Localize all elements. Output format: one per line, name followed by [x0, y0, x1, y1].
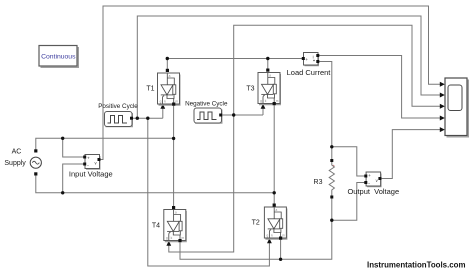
svg-text:AC: AC	[12, 149, 22, 156]
svg-text:T4: T4	[152, 223, 160, 230]
svg-text:Supply: Supply	[4, 160, 26, 167]
svg-text:Output Voltage: Output Voltage	[347, 187, 399, 196]
svg-text:+: +	[333, 163, 336, 168]
svg-text:T3: T3	[246, 85, 254, 92]
svg-text:Input Voltage: Input Voltage	[69, 170, 113, 179]
svg-text:Negative Cycle: Negative Cycle	[185, 101, 228, 108]
svg-text:T2: T2	[252, 220, 260, 227]
svg-text:Load Current: Load Current	[287, 68, 332, 77]
svg-text:InstrumentationTools.com: InstrumentationTools.com	[367, 260, 466, 269]
svg-text:T1: T1	[146, 85, 154, 92]
svg-text:Positive Cycle: Positive Cycle	[98, 103, 138, 110]
svg-text:Continuous: Continuous	[41, 53, 76, 60]
svg-text:R3: R3	[314, 179, 323, 186]
